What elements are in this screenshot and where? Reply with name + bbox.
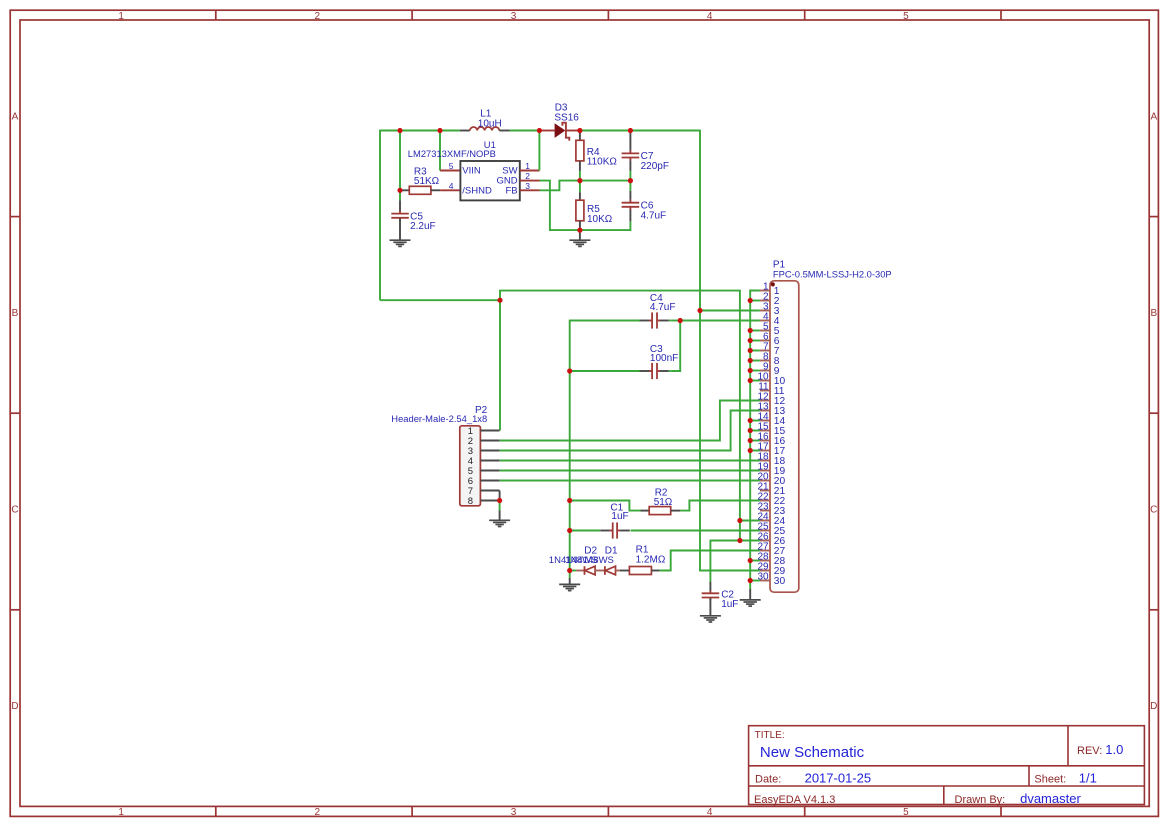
node R2 branch junction [567, 498, 572, 503]
diode D2 [576, 566, 605, 575]
svg-text:220pF: 220pF [641, 161, 669, 172]
diode D3 [555, 123, 570, 141]
P2 pin 6 stub [480, 480, 499, 482]
node P2 pin8 junction [497, 498, 502, 503]
capacitor C3 [640, 363, 672, 379]
wire bus ground lead [749, 589, 751, 600]
inductor L1 [460, 127, 510, 130]
svg-text:5: 5 [903, 807, 909, 818]
wire D2 left [570, 570, 576, 572]
node bus junction pin 17 [748, 448, 753, 453]
wire VOUT up-right to P1 area [500, 291, 740, 541]
wire to P1 pin 4 [680, 320, 760, 322]
node pin24 junction [737, 518, 742, 523]
svg-text:4: 4 [449, 181, 454, 191]
wire C4 left horizontal [570, 320, 641, 322]
svg-text:Sheet:: Sheet: [1034, 774, 1066, 786]
wire bus stub pin 2 [750, 300, 760, 302]
wire U1 GND elbow [540, 181, 580, 231]
wire P2 pin3 to P1 pin13 [500, 411, 760, 451]
wire VIIN vertical [439, 130, 441, 171]
wire VOUT vertical to P2 pin1 [499, 300, 501, 430]
resistor R2 [641, 507, 681, 515]
wire bus stub pin 8 [750, 360, 760, 362]
ground R5/U1 [569, 240, 590, 246]
wire bus stub pin 30 [750, 580, 760, 582]
svg-text:D: D [11, 701, 18, 712]
wire C2 branch [710, 541, 740, 582]
svg-text:REV:: REV: [1077, 745, 1102, 757]
P1 pin 17 stub [760, 450, 770, 452]
svg-text:C: C [1150, 505, 1157, 516]
svg-text:5: 5 [903, 11, 909, 22]
svg-text:SS16: SS16 [554, 112, 579, 123]
pin 5 stub VIIN [440, 170, 460, 172]
node pin26 junction [737, 538, 742, 543]
wire FB row horizontal [580, 180, 631, 182]
node C1 branch junction [567, 528, 572, 533]
svg-text:B: B [12, 308, 19, 319]
svg-text:New Schematic: New Schematic [760, 744, 865, 761]
wire C3 right corner [671, 321, 680, 372]
capacitor C5 [391, 201, 409, 240]
node R3 branch junction [397, 128, 402, 133]
wire ground bus vertical [749, 291, 751, 590]
wire bus stub pin 6 [750, 340, 760, 342]
node bus junction pin 2 [748, 298, 753, 303]
P2 pin 1 stub [480, 430, 499, 432]
P1 pin 1 stub [760, 290, 770, 292]
pin 3 stub FB [520, 189, 540, 191]
capacitor C6 [622, 181, 640, 222]
wire bus stub pin 28 [750, 560, 760, 562]
P1 pin 30 stub [760, 580, 770, 582]
svg-text:10KΩ: 10KΩ [587, 214, 613, 225]
svg-text:2017-01-25: 2017-01-25 [805, 771, 872, 786]
svg-text:1/1: 1/1 [1079, 771, 1097, 786]
wire C7 to FB row [629, 171, 631, 181]
svg-text:A: A [1150, 111, 1157, 122]
wire R5 bottom to ground [579, 230, 581, 240]
svg-text:EasyEDA V4.1.3: EasyEDA V4.1.3 [754, 794, 835, 806]
resistor R1 [629, 567, 659, 575]
diode D1 [605, 566, 630, 575]
title block box [749, 726, 1145, 805]
svg-text:B: B [1150, 308, 1157, 319]
wire to P1 pin 26 [740, 540, 760, 542]
wire bus stub pin 5 [750, 330, 760, 332]
svg-text:2: 2 [315, 807, 321, 818]
node C4-pin4 junction [678, 318, 683, 323]
diode D3 cathode wire [567, 130, 580, 132]
capacitor C4 [640, 312, 672, 328]
wire C6 bottom corner [580, 221, 631, 230]
resistor R4 [576, 131, 584, 171]
svg-text:LM27313XMF/NOPB: LM27313XMF/NOPB [408, 148, 496, 159]
P2 pin 3 stub [480, 450, 499, 452]
node VIIN branch junction [437, 128, 442, 133]
wire P2 pin6 to P1 pin20 [500, 480, 760, 482]
P1 pin 5 stub [760, 330, 770, 332]
ground C5 [390, 240, 411, 246]
node bus junction pin 30 [748, 578, 753, 583]
P1 pin 23 stub [760, 510, 770, 512]
wire P2 pin4 to P1 pin18 [500, 460, 760, 462]
wire C1 left [570, 530, 601, 532]
node VOUT junction at P2 pin1 column [497, 298, 502, 303]
resistor R5 [576, 181, 584, 231]
wire right vertical VOUT2 to pin29 [700, 130, 760, 571]
svg-text:1uF: 1uF [721, 599, 738, 610]
svg-text:1: 1 [118, 807, 124, 818]
wire VIN left vertical [379, 130, 381, 301]
wire C4 left corner [570, 320, 641, 371]
node C3 left junction [567, 368, 572, 373]
connector P1 body [770, 281, 799, 592]
wire left bus vertical x570 [569, 371, 571, 578]
wire bus top corner to pin1 [750, 291, 760, 292]
svg-text:1: 1 [525, 161, 530, 171]
wire bus stub pin 7 [750, 350, 760, 352]
title block dividers [749, 726, 1145, 805]
node pin3 junction on x700 [697, 308, 702, 313]
wire P2 ground drop [499, 501, 501, 511]
wire L1 to D3 [510, 130, 540, 132]
svg-text:FB: FB [505, 185, 517, 196]
P1 pin 22 stub [760, 500, 770, 502]
svg-text:2.2uF: 2.2uF [410, 221, 436, 232]
node R5 bottom junction [577, 228, 582, 233]
wire left bus lead to ground [569, 578, 571, 584]
wire U1 FB elbow [540, 181, 580, 191]
node bus junction pin 5 [748, 328, 753, 333]
svg-text:dvamaster: dvamaster [1020, 791, 1081, 806]
svg-text:VIIN: VIIN [462, 166, 481, 177]
P2 pin 8 stub [480, 500, 499, 502]
svg-text:4: 4 [707, 807, 713, 818]
node D2 branch junction [567, 568, 572, 573]
svg-text:Drawn By:: Drawn By: [955, 794, 1006, 806]
ground C2 [700, 616, 721, 622]
node bus junction pin 8 [748, 358, 753, 363]
P1 pin 18 stub [760, 460, 770, 462]
frame row letters left [11, 111, 18, 712]
svg-text:D: D [1150, 701, 1157, 712]
P1 pin 27 stub [760, 550, 770, 552]
wire bus stub pin 14 [750, 420, 760, 422]
node bus junction pin 28 [748, 558, 753, 563]
P1 pin 20 stub [760, 480, 770, 482]
wire to P1 pin 3 [700, 310, 760, 312]
resistor R3 [400, 186, 440, 194]
node R3 junction [397, 188, 402, 193]
P2 pin 4 stub [480, 460, 499, 462]
P1 pin 7 stub [760, 350, 770, 352]
P1 pin 9 stub [760, 370, 770, 372]
wire C4 right to pin4 [671, 320, 680, 322]
wire bus stub pin 15 [750, 430, 760, 432]
ground P1 bus [740, 600, 761, 606]
P1 pin 28 stub [760, 560, 770, 562]
node bus junction pin 14 [748, 418, 753, 423]
node bus junction pin 15 [748, 428, 753, 433]
svg-text:2: 2 [525, 171, 530, 181]
P1 pin 2 stub [760, 300, 770, 302]
svg-text:5: 5 [449, 161, 454, 171]
P1 pin 19 stub [760, 470, 770, 472]
op-amp U1 body [460, 161, 519, 200]
svg-text:8: 8 [468, 496, 473, 507]
wire to P1 pin 24 [740, 520, 760, 522]
node bus junction pin 6 [748, 338, 753, 343]
wire bus stub pin 9 [750, 370, 760, 372]
svg-text:1.2MΩ: 1.2MΩ [636, 555, 666, 566]
svg-text:51KΩ: 51KΩ [414, 176, 440, 187]
svg-text:30: 30 [774, 576, 786, 587]
P2 pin 5 stub [480, 470, 499, 472]
svg-text:C: C [11, 505, 18, 516]
wire P2 pin2 to P1 pin12 [500, 401, 760, 441]
svg-text:1N4148WS: 1N4148WS [565, 555, 614, 566]
wire C7 to right corner [630, 130, 700, 132]
svg-text:Header-Male-2.54_1x8: Header-Male-2.54_1x8 [391, 413, 487, 424]
svg-text:FPC-0.5MM-LSSJ-H2.0-30P: FPC-0.5MM-LSSJ-H2.0-30P [773, 268, 892, 279]
node L1-D3 junction [537, 128, 542, 133]
wire R2 to P1 pin22 [680, 501, 760, 511]
svg-text:3: 3 [511, 807, 517, 818]
svg-text:100nF: 100nF [650, 353, 678, 364]
svg-text:TITLE:: TITLE: [755, 730, 785, 741]
node bus junction pin 16 [748, 438, 753, 443]
wire P2 pin7 to pin8 corner [499, 491, 501, 501]
P1 pin 3 stub [760, 310, 770, 312]
wire bus stub pin 17 [750, 450, 760, 452]
wire R2 path left [570, 501, 641, 511]
P1 pin 25 stub [760, 530, 770, 532]
frame row letters right [1150, 111, 1157, 712]
node bus junction pin 10 [748, 378, 753, 383]
svg-text:4: 4 [707, 11, 713, 22]
svg-text:A: A [12, 111, 19, 122]
P1 pin 11 stub [760, 390, 770, 392]
ground left bus [559, 584, 580, 590]
svg-text:1uF: 1uF [611, 511, 628, 522]
P1 pin 10 stub [760, 380, 770, 382]
diode D3 anode wire [539, 130, 554, 132]
P1 pin 21 stub [760, 490, 770, 492]
P1 pin 6 stub [760, 340, 770, 342]
wire R1 to P1 pin27 [660, 551, 760, 571]
node C7 top junction [628, 128, 633, 133]
wire VIN top horizontal [380, 130, 460, 132]
wire P2 pin5 to P1 pin19 [500, 470, 760, 472]
node FB junction [577, 178, 582, 183]
svg-text:3: 3 [511, 11, 517, 22]
P1 pin 26 stub [760, 540, 770, 542]
P1 pin 8 stub [760, 360, 770, 362]
P1 pin1 marker dot [771, 282, 775, 286]
frame column numbers bottom [118, 807, 909, 818]
svg-text:Date:: Date: [755, 774, 781, 786]
P1 pin 24 stub [760, 520, 770, 522]
P1 pin 13 stub [760, 410, 770, 412]
P1 pin 4 stub [760, 320, 770, 322]
pin 4 stub /SHND [440, 189, 460, 191]
wire D3 to C7 [580, 130, 631, 132]
wire R4 to FB node [579, 171, 581, 181]
node D3-R4 junction [577, 128, 582, 133]
wire bus stub pin 16 [750, 440, 760, 442]
node bus junction pin 9 [748, 368, 753, 373]
wire SW vertical [538, 131, 540, 171]
wire bus stub pin 10 [750, 380, 760, 382]
capacitor C2 [702, 582, 720, 616]
pin 1 stub SW [520, 170, 540, 172]
capacitor C1 [600, 522, 630, 538]
wire C1 to P1 pin25 [631, 530, 760, 532]
frame column numbers top [118, 11, 909, 22]
P2 pin 2 stub [480, 440, 499, 442]
P1 pin 29 stub [760, 570, 770, 572]
wire R3/C5 vertical [399, 130, 401, 201]
P1 pin 15 stub [760, 430, 770, 432]
svg-text:2: 2 [315, 11, 321, 22]
node bus junction pin 7 [748, 348, 753, 353]
svg-text:4.7uF: 4.7uF [650, 302, 676, 313]
svg-text:10uH: 10uH [478, 118, 502, 129]
P1 pin 12 stub [760, 400, 770, 402]
svg-text:1: 1 [118, 11, 124, 22]
P1 pin 14 stub [760, 420, 770, 422]
wire P2 ground lead [499, 511, 501, 520]
svg-text:4.7uF: 4.7uF [641, 211, 667, 222]
wire top horizontal to P2/P1 net [380, 299, 500, 301]
capacitor C7 [622, 131, 640, 171]
pin 2 stub GND [520, 180, 540, 182]
ground P2 [489, 520, 510, 526]
connector P2 body [460, 426, 481, 506]
node C6 top junction [628, 178, 633, 183]
svg-text:1.0: 1.0 [1105, 742, 1123, 757]
svg-text:51Ω: 51Ω [654, 497, 673, 508]
svg-text:110KΩ: 110KΩ [587, 157, 618, 168]
P1 pin 16 stub [760, 440, 770, 442]
P2 pin 7 stub [480, 490, 499, 492]
svg-text:/SHND: /SHND [462, 185, 492, 196]
svg-text:3: 3 [525, 181, 530, 191]
